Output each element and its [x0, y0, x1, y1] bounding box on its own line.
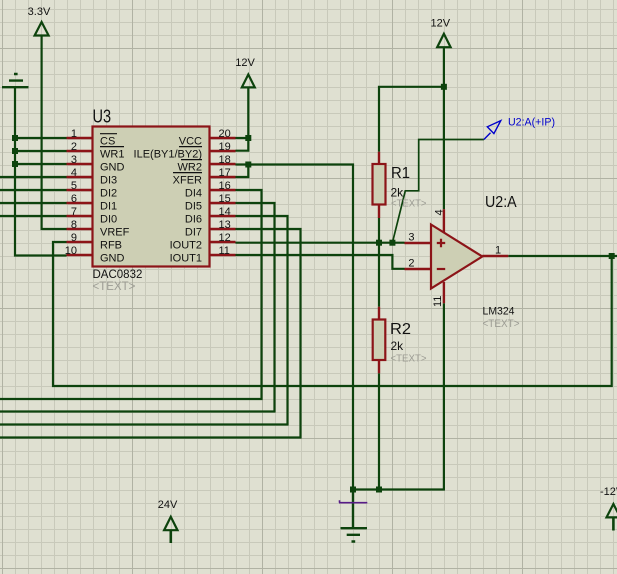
svg-text:VREF: VREF [100, 226, 130, 238]
wire op-amp output to right edge [508, 255, 617, 257]
svg-text:12V: 12V [235, 57, 255, 69]
wire R2 bottom to ground rail [378, 373, 380, 489]
junction node pin3 wire / gnd stem [12, 161, 18, 167]
junction node pin18 wire / pin17 branch [245, 162, 251, 168]
wire 12V to op-amp pin 4 [443, 47, 445, 209]
svg-text:3.3V: 3.3V [28, 6, 51, 18]
wire pin 2 WR1 [15, 150, 67, 152]
ground (top left, pointing up) [2, 74, 29, 87]
svg-text:9: 9 [71, 232, 77, 244]
svg-text:20: 20 [219, 128, 231, 140]
svg-text:IOUT1: IOUT1 [170, 252, 202, 264]
svg-text:4: 4 [71, 167, 77, 179]
svg-text:2k: 2k [391, 339, 405, 353]
wire pin 11 IOUT1 to op-amp inverting input [236, 255, 405, 269]
wire pin 12 IOUT2 to op-amp non-inverting input [236, 242, 405, 244]
wire pin 16 DI4 to left edge [0, 190, 262, 399]
svg-text:DAC0832: DAC0832 [93, 269, 143, 281]
power 12V (right, above op-amp) [431, 17, 451, 47]
svg-text:<TEXT>: <TEXT> [483, 318, 520, 330]
svg-text:DI6: DI6 [185, 213, 202, 225]
wire pin 14 DI6 to left edge [0, 216, 288, 425]
chip U3 DAC0832 body [93, 107, 210, 293]
svg-text:4: 4 [434, 209, 446, 215]
wire 12V rail to pins 20 and 19 [236, 87, 249, 150]
junction node 12V / pin 20 [245, 135, 251, 141]
junction node pin1 wire / gnd stem [12, 135, 18, 141]
svg-text:GND: GND [100, 252, 125, 264]
svg-text:DI7: DI7 [185, 226, 202, 238]
svg-text:R2: R2 [390, 321, 411, 338]
wire pin 15 DI5 to left edge [0, 203, 275, 412]
svg-text:U2:A(+IP): U2:A(+IP) [508, 117, 555, 129]
op-amp U2:A LM324 [405, 194, 520, 330]
power 24V (floating, bottom) [158, 499, 178, 543]
svg-text:IOUT2: IOUT2 [170, 239, 202, 251]
svg-text:16: 16 [219, 180, 231, 192]
U3 active-low overlines [100, 134, 202, 173]
svg-text:2: 2 [408, 258, 414, 270]
svg-text:DI5: DI5 [185, 200, 202, 212]
svg-text:DI2: DI2 [100, 187, 117, 199]
wire to net label U2:A(+IP) [392, 140, 484, 243]
svg-text:LM324: LM324 [483, 306, 515, 318]
svg-text:DI1: DI1 [100, 200, 117, 212]
svg-text:6: 6 [71, 193, 77, 205]
wire pin 3 GND [15, 163, 67, 165]
wire GND net: ground stem down to pin 10 of U3 [15, 87, 67, 256]
svg-text:RFB: RFB [100, 239, 122, 251]
svg-text:1: 1 [495, 245, 501, 257]
svg-text:U3: U3 [93, 107, 112, 127]
svg-text:24V: 24V [158, 499, 178, 511]
wire ground rail to op-amp pin 11 [353, 303, 444, 489]
junction node pin2 wire / gnd stem [12, 148, 18, 154]
svg-text:ILE(BY1/BY2): ILE(BY1/BY2) [134, 148, 202, 160]
svg-text:17: 17 [219, 167, 231, 179]
resistor R1 [373, 152, 427, 218]
svg-text:VCC: VCC [179, 135, 202, 147]
svg-text:15: 15 [219, 193, 231, 205]
svg-text:12V: 12V [431, 17, 451, 29]
U3 pin stubs right (pins 20-11) [210, 138, 236, 255]
junction node ground rail / WR2-XFER wire [350, 487, 356, 493]
svg-text:5: 5 [71, 180, 77, 192]
junction node R1-R2 / +input [376, 240, 382, 246]
svg-text:-12V: -12V [600, 486, 617, 498]
svg-text:7: 7 [71, 206, 77, 218]
power 3.3V [28, 6, 51, 36]
junction node output / feedback [609, 253, 615, 259]
svg-text:8: 8 [71, 219, 77, 231]
svg-text:3: 3 [408, 232, 414, 244]
junction node 12V / R1 top [441, 84, 447, 90]
svg-text:WR2: WR2 [178, 161, 202, 173]
svg-text:CS: CS [100, 135, 115, 147]
svg-text:1: 1 [71, 128, 77, 140]
wire pin 9 RFB feedback loop to op-amp output [53, 242, 612, 386]
wire pin 13 DI7 to left edge [0, 229, 301, 438]
U3 pin names left column [100, 135, 130, 264]
wire R1 top to 12V rail [379, 87, 444, 152]
svg-text:<TEXT>: <TEXT> [391, 353, 427, 365]
svg-text:DI0: DI0 [100, 213, 117, 225]
net label U2:A(+IP) with arrow [484, 117, 555, 140]
svg-text:2: 2 [71, 141, 77, 153]
svg-text:10: 10 [65, 245, 77, 257]
svg-text:<TEXT>: <TEXT> [391, 198, 427, 210]
svg-text:11: 11 [219, 245, 230, 257]
svg-text:WR1: WR1 [100, 148, 124, 160]
wire R1 bottom to R2 top [378, 218, 380, 307]
svg-text:DI4: DI4 [185, 187, 202, 199]
svg-text:11: 11 [432, 296, 444, 307]
wire 3.3V to pin 8 VREF [42, 36, 67, 229]
wire pin 4 DI3 to left edge [0, 176, 67, 178]
svg-text:U2:A: U2:A [485, 194, 517, 211]
svg-text:DI3: DI3 [100, 174, 117, 186]
wire pin 1 CS [15, 137, 67, 139]
power -12V (bottom right) [600, 486, 617, 531]
svg-text:14: 14 [219, 206, 231, 218]
wire pin 18 WR2 and pin 17 XFER down to ground [236, 165, 354, 490]
svg-text:XFER: XFER [173, 174, 202, 186]
svg-text:R1: R1 [391, 165, 410, 182]
svg-text:12: 12 [219, 232, 231, 244]
ground origin marker (purple bar) [339, 500, 367, 502]
wire pin 5 DI2 to left edge [0, 189, 67, 191]
wire pin 7 DI0 to left edge [0, 215, 67, 217]
svg-text:19: 19 [219, 141, 231, 153]
power 12V (above U3) [235, 57, 255, 87]
resistor R2 [373, 307, 427, 374]
svg-text:3: 3 [71, 154, 77, 166]
svg-text:GND: GND [100, 161, 125, 173]
junction node label wire / +input [389, 240, 395, 246]
U3 pin numbers right [219, 128, 231, 257]
U3 pin stubs left (pins 1-10) [67, 138, 93, 255]
U3 pin numbers left [65, 128, 77, 257]
svg-text:13: 13 [219, 219, 231, 231]
junction node ground rail / R2 bottom [376, 487, 382, 493]
U3 pin names right column [134, 135, 203, 264]
wire pin 6 DI1 to left edge [0, 202, 67, 204]
svg-text:<TEXT>: <TEXT> [93, 281, 136, 293]
svg-text:18: 18 [219, 154, 231, 166]
ground (bottom middle) [341, 490, 368, 542]
